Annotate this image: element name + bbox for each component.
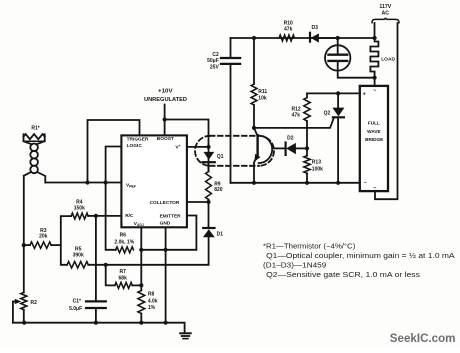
svg-text:10k: 10k [258,95,267,101]
svg-text:R13: R13 [312,159,321,165]
svg-text:47k: 47k [292,113,301,119]
svg-text:D2: D2 [287,135,294,141]
svg-text:100k: 100k [312,166,323,172]
svg-text:1%: 1% [148,305,156,311]
svg-text:*R1—Thermistor (−4%/°C): *R1—Thermistor (−4%/°C) [263,242,355,250]
svg-text:R2: R2 [31,300,38,306]
svg-text:R/C: R/C [125,213,134,219]
svg-text:4.0k: 4.0k [148,298,158,304]
svg-text:D1: D1 [217,231,224,237]
svg-text:5.0μF: 5.0μF [69,306,82,312]
svg-text:150k: 150k [74,205,85,211]
svg-text:R11: R11 [258,89,267,95]
svg-text:FULL: FULL [368,121,380,126]
svg-text:COLLECTOR: COLLECTOR [150,200,180,206]
svg-text:47k: 47k [284,27,293,33]
svg-text:Q2—Sensitive gate SCR, 1.0 mA: Q2—Sensitive gate SCR, 1.0 mA or less [266,272,420,279]
svg-text:D3: D3 [311,25,318,31]
svg-text:Q1—Optical coupler, minimum ga: Q1—Optical coupler, minimum gain = ½ at … [266,252,455,260]
svg-text:68k: 68k [119,275,128,281]
svg-text:20k: 20k [39,234,48,240]
svg-text:LOGIC: LOGIC [127,143,143,149]
svg-text:R1*: R1* [31,126,39,132]
svg-text:BOOST: BOOST [157,136,174,142]
svg-text:820: 820 [214,187,223,193]
svg-text:TRIGGER: TRIGGER [127,137,149,143]
svg-text:R7: R7 [119,269,126,275]
svg-text:Q2: Q2 [324,110,331,116]
svg-text:LOAD: LOAD [381,56,395,62]
svg-text:Q1: Q1 [217,154,224,160]
svg-text:+: + [363,91,366,97]
svg-text:EMITTER: EMITTER [160,213,182,219]
svg-text:2.0k, 1%: 2.0k, 1% [114,239,134,245]
svg-text:117V: 117V [379,4,391,10]
svg-text:BRIDGE: BRIDGE [365,137,383,142]
svg-text:390k: 390k [73,253,84,259]
svg-text:WAVE: WAVE [367,129,380,134]
svg-text:GND: GND [160,221,171,227]
svg-text:−: − [364,180,367,186]
svg-text:25V: 25V [210,64,220,70]
svg-text:R12: R12 [292,106,301,112]
svg-text:AC: AC [382,11,390,17]
svg-text:(D1–D3)—1N459: (D1–D3)—1N459 [263,262,326,269]
svg-text:50μF: 50μF [207,58,219,64]
svg-text:UNREGULATED: UNREGULATED [144,97,187,103]
svg-text:SeekIC.com: SeekIC.com [390,332,456,345]
svg-text:R6: R6 [120,233,127,239]
svg-text:R8: R8 [148,292,155,298]
svg-text:C1*: C1* [73,299,81,305]
svg-text:+10V: +10V [158,89,173,95]
